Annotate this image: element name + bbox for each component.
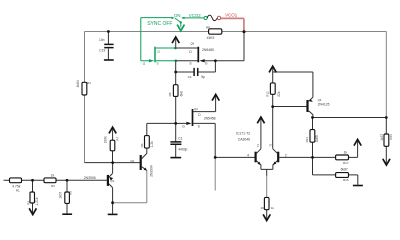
svg-text:2: 2 xyxy=(285,154,287,158)
svg-text:Q6: Q6 xyxy=(190,42,194,46)
svg-text:R3: R3 xyxy=(51,184,55,188)
svg-text:R11: R11 xyxy=(261,206,266,210)
svg-text:ON: ON xyxy=(174,13,181,18)
svg-text:R5: R5 xyxy=(69,191,73,195)
svg-text:4400p: 4400p xyxy=(178,147,187,151)
svg-text:1k65: 1k65 xyxy=(315,135,319,142)
svg-text:R4: R4 xyxy=(87,81,91,85)
svg-text:1k: 1k xyxy=(51,174,55,178)
svg-text:4k64: 4k64 xyxy=(76,80,80,87)
svg-text:1.21k: 1.21k xyxy=(35,197,39,205)
svg-text:C4: C4 xyxy=(188,75,192,79)
svg-text:IC171-T2: IC171-T2 xyxy=(236,131,250,135)
svg-text:VCO1: VCO1 xyxy=(225,13,238,18)
svg-text:1.2k: 1.2k xyxy=(150,141,154,148)
svg-text:Q4: Q4 xyxy=(194,107,198,111)
svg-text:R2: R2 xyxy=(26,201,30,205)
svg-text:RF: RF xyxy=(206,25,210,29)
svg-text:G: G xyxy=(205,61,208,65)
svg-text:5p: 5p xyxy=(201,75,205,79)
svg-text:2N3906: 2N3906 xyxy=(84,176,96,180)
svg-text:Q1: Q1 xyxy=(110,179,114,183)
svg-text:R17: R17 xyxy=(343,161,349,165)
svg-text:R6: R6 xyxy=(140,143,144,147)
svg-text:SYNC OFF: SYNC OFF xyxy=(147,21,172,27)
svg-text:2N5485: 2N5485 xyxy=(202,48,214,52)
svg-text:6k87: 6k87 xyxy=(341,167,348,171)
svg-text:22k: 22k xyxy=(277,91,281,97)
svg-text:R7: R7 xyxy=(115,136,119,140)
svg-text:Q2: Q2 xyxy=(130,159,134,163)
svg-text:43K9: 43K9 xyxy=(207,36,215,40)
svg-text:2N5458: 2N5458 xyxy=(204,116,216,120)
svg-text:1k37: 1k37 xyxy=(380,134,384,141)
svg-text:R1: R1 xyxy=(16,188,20,192)
svg-text:4: 4 xyxy=(247,154,249,158)
svg-text:C19: C19 xyxy=(99,49,105,53)
svg-text:2N4125: 2N4125 xyxy=(318,102,330,106)
svg-text:R16: R16 xyxy=(389,134,393,140)
svg-text:6k8: 6k8 xyxy=(180,91,184,96)
svg-text:1k: 1k xyxy=(271,206,275,210)
svg-text:2N3904: 2N3904 xyxy=(150,165,154,177)
svg-text:C1: C1 xyxy=(178,137,182,141)
svg-text:VCO2: VCO2 xyxy=(189,13,202,18)
svg-text:100k: 100k xyxy=(104,136,108,144)
svg-text:R13: R13 xyxy=(305,137,309,143)
svg-text:CA3046: CA3046 xyxy=(238,137,250,141)
svg-text:Q3: Q3 xyxy=(318,98,322,102)
svg-text:1k: 1k xyxy=(344,151,348,155)
svg-text:1k07: 1k07 xyxy=(59,191,63,198)
svg-text:G: G xyxy=(182,124,185,128)
svg-text:R8: R8 xyxy=(168,92,172,96)
svg-text:G: G xyxy=(143,62,146,66)
svg-text:10n: 10n xyxy=(99,38,105,42)
svg-text:R12: R12 xyxy=(266,91,270,97)
svg-text:R15: R15 xyxy=(343,178,349,182)
